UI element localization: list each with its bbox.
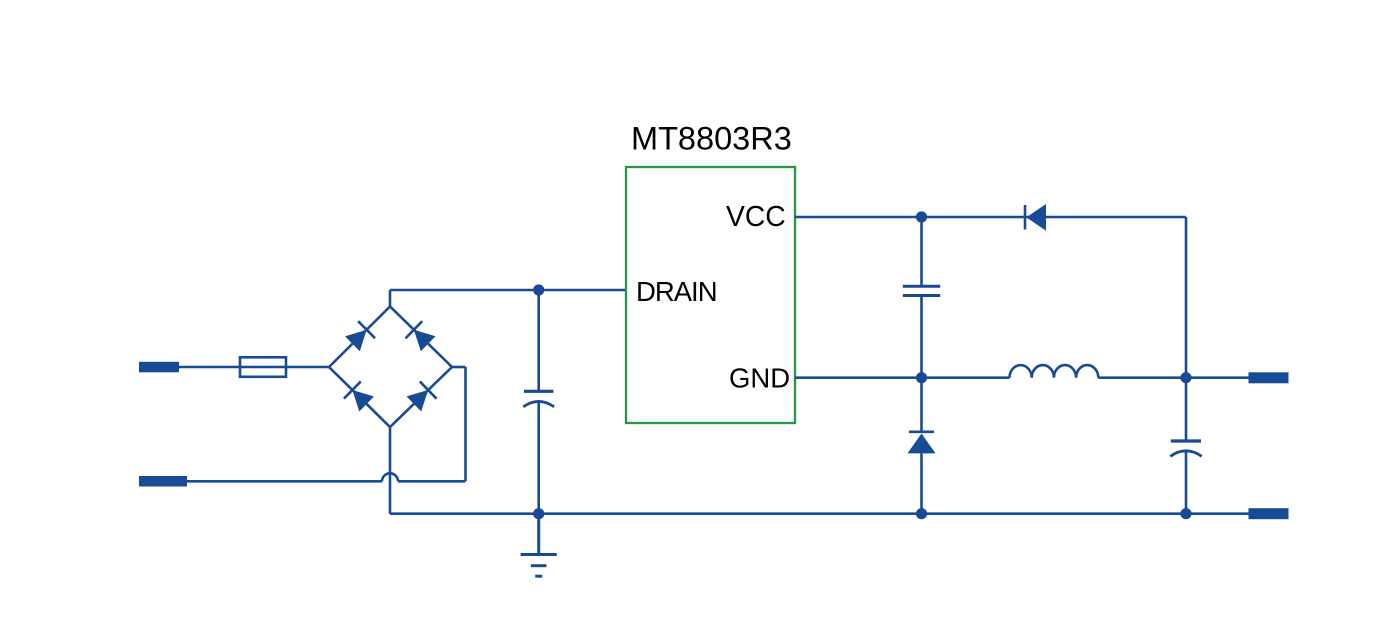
wire hop over bridge-bottom lead <box>382 473 398 481</box>
wire C3 to bus <box>1185 451 1188 514</box>
svg-text:VCC: VCC <box>726 200 786 232</box>
svg-text:DRAIN: DRAIN <box>636 276 717 307</box>
wire J2 toward bridge <box>187 480 382 483</box>
bridge rectifier BR1 frame <box>329 307 452 428</box>
capacitor C3 (polarized output cap) <box>1170 441 1201 456</box>
svg-text:GND: GND <box>729 363 790 394</box>
output terminal J3 (VOUT) <box>1249 372 1289 383</box>
wire VOUT node to terminal <box>1186 376 1249 379</box>
wire up to bridge right corner <box>464 367 467 481</box>
input terminal J1 (AC line) <box>139 362 179 373</box>
wire C2 to GND node <box>920 296 923 378</box>
input terminal J2 (AC neutral) <box>139 476 187 487</box>
junction node DRAIN/C1 <box>533 284 544 295</box>
wire J1 to fuse F1 <box>179 366 240 369</box>
junction node VCC/C2 <box>916 211 927 222</box>
wire node to capacitor C1 <box>537 290 540 391</box>
bridge diode D4 (right-bottom arm) <box>405 381 436 412</box>
wire bridge top corner to DRAIN line <box>389 290 392 307</box>
junction node bus/C1 <box>533 508 544 519</box>
svg-text:MT8803R3: MT8803R3 <box>631 121 792 157</box>
ground symbol <box>521 514 557 577</box>
junction node GND/C2/D6 <box>916 372 927 383</box>
junction node bus/C3 <box>1180 508 1191 519</box>
junction node VOUT/C3 <box>1180 372 1191 383</box>
wire GND node to diode D6 <box>920 378 923 433</box>
inductor L1 <box>1010 365 1099 378</box>
wire DRAIN net <box>390 289 626 292</box>
wire VCC pin net <box>795 216 1186 219</box>
wire to bridge right corner <box>452 366 466 369</box>
wire VCC node to capacitor C2 <box>920 217 923 286</box>
IC U1 MT8803R3 box <box>626 167 795 423</box>
fuse F1 <box>240 357 286 377</box>
wire bottom ground bus <box>390 512 1249 515</box>
wire bridge bottom corner down to bus <box>389 427 392 514</box>
bridge diode D1 (left-top arm) <box>344 321 375 352</box>
diode D6 (to ground bus, pointing up) <box>908 432 936 454</box>
wire VOUT node to capacitor C3 <box>1185 378 1188 441</box>
wire C1 to ground bus <box>537 402 540 514</box>
output terminal J4 (ground return) <box>1249 508 1289 519</box>
wire L1 to output node <box>1098 376 1186 379</box>
bridge diode D3 (bottom-left arm) <box>344 381 375 412</box>
wire hop to corner <box>398 480 466 483</box>
capacitor C2 <box>903 286 940 295</box>
wire F1 to bridge left corner <box>286 366 329 369</box>
bridge diode D2 (top-right arm) <box>405 321 436 352</box>
junction node bus/D6 <box>916 508 927 519</box>
capacitor C1 (polarized bulk cap) <box>523 391 554 407</box>
wire VCC right corner down <box>1185 217 1188 378</box>
diode D5 (freewheel, on VCC line, pointing left) <box>1025 204 1046 231</box>
wire D6 to bus <box>920 453 923 513</box>
wire GND pin to node <box>795 376 1010 379</box>
